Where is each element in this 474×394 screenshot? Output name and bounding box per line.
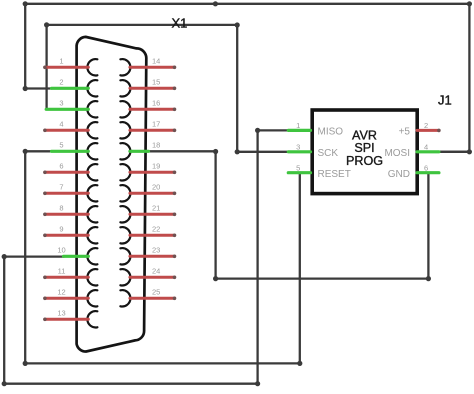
svg-text:X1: X1 [172, 16, 188, 31]
svg-text:J1: J1 [438, 92, 452, 107]
X1 pin 8 stub [45, 213, 88, 216]
svg-text:18: 18 [152, 141, 160, 150]
X1 pin 16 socket arc [120, 101, 130, 117]
connector X1 body (DB25) [77, 37, 147, 352]
wire net pin2/MOSI: top horizontal [25, 3, 469, 5]
wire net pin5/RESET: left vertical [24, 151, 26, 363]
X1 pin 21 stub [130, 213, 175, 216]
X1 pin 14 stub [130, 66, 175, 69]
X1 pin 22 stub [130, 234, 175, 237]
svg-text:8: 8 [59, 204, 63, 213]
svg-text:SPI: SPI [354, 141, 374, 155]
svg-text:1: 1 [59, 57, 63, 66]
X1 pin 7 socket arc [87, 185, 97, 201]
svg-text:20: 20 [152, 183, 160, 192]
svg-text:24: 24 [152, 267, 160, 276]
X1 pin 1 stub [45, 66, 88, 69]
svg-text:3: 3 [59, 99, 63, 108]
J1 pin 3 (SCK) stub [288, 150, 310, 153]
X1 pin 5 stub (connected, green) [52, 150, 89, 153]
X1 pin 13 stub [45, 318, 88, 321]
J1 pin 4 (MOSI) stub [417, 150, 439, 153]
svg-text:4: 4 [59, 120, 63, 129]
X1 pin 4 socket arc [87, 122, 97, 138]
svg-text:5: 5 [296, 164, 300, 173]
X1 pin 2 stub (connected, green) [52, 87, 89, 90]
X1 pin 11 stub [45, 276, 88, 279]
X1 pin 9 stub [45, 234, 88, 237]
svg-text:23: 23 [152, 246, 160, 255]
svg-text:22: 22 [152, 225, 160, 234]
X1 pin 7 stub [45, 192, 88, 195]
svg-text:4: 4 [424, 143, 428, 152]
svg-text:PROG: PROG [346, 154, 383, 168]
X1 pin 4 stub [45, 129, 88, 132]
svg-text:11: 11 [58, 267, 66, 276]
wire net pin18/GND: vertical up to GND [427, 174, 429, 279]
X1 pin 23 socket arc [120, 248, 130, 264]
wire pin2 stub lead [25, 87, 52, 89]
J1 title text AVR SPI PROG [346, 128, 383, 168]
X1 pin 8 socket arc [87, 206, 97, 222]
wire net pin10/MISO: vertical up to MISO [258, 130, 289, 383]
wire net pin10/MISO: stub lead [4, 255, 64, 257]
X1 pin 2 socket arc [87, 80, 97, 96]
wire net pin10/MISO: bottom horizontal [4, 383, 257, 385]
wire net pin2/MOSI: right vertical down to MOSI [439, 4, 470, 152]
X1 pin 12 stub [45, 297, 88, 300]
svg-text:+5: +5 [399, 127, 411, 138]
X1 pin 25 stub [130, 297, 175, 300]
X1 pin 24 stub [130, 276, 175, 279]
X1 pin 24 socket arc [120, 269, 130, 285]
svg-text:10: 10 [57, 246, 65, 255]
X1 pin 23 stub [130, 255, 175, 258]
svg-text:GND: GND [388, 169, 410, 180]
X1 pin 6 socket arc [87, 164, 97, 180]
X1 pin 18 stub (connected, green) [130, 150, 149, 153]
IC J1 body (AVR SPI PROG) [312, 110, 417, 194]
X1 pin 18 socket arc [120, 143, 130, 159]
svg-text:15: 15 [152, 78, 160, 87]
X1 pin 20 socket arc [120, 185, 130, 201]
svg-text:21: 21 [152, 204, 160, 213]
svg-text:3: 3 [296, 143, 300, 152]
X1 pin 12 socket arc [87, 290, 97, 306]
X1 pin 21 socket arc [120, 206, 130, 222]
X1 pin 20 stub [130, 192, 175, 195]
wire net pin5/RESET: vertical up to RESET [299, 174, 301, 363]
X1 pin 5 socket arc [87, 143, 97, 159]
svg-text:MISO: MISO [318, 127, 344, 138]
svg-text:MOSI: MOSI [384, 148, 410, 159]
svg-text:16: 16 [152, 99, 160, 108]
X1 pin 19 socket arc [120, 164, 130, 180]
X1 pin 9 socket arc [87, 227, 97, 243]
X1 pin 13 socket arc [87, 311, 97, 327]
X1 pin 10 socket arc [87, 248, 97, 264]
J1 pin 2 (+5) stub [417, 129, 439, 132]
X1 pin 22 socket arc [120, 227, 130, 243]
X1 pin 3 stub (connected, green) [46, 108, 88, 111]
wire net pin18/GND: from pin 18 [148, 151, 216, 278]
svg-text:9: 9 [59, 225, 63, 234]
svg-text:6: 6 [59, 162, 63, 171]
X1 pin 10 stub (connected, green) [64, 255, 89, 258]
X1 pin 17 socket arc [120, 122, 130, 138]
wire net pin3/SCK: X1 horizontal [47, 24, 238, 26]
wire net pin18/GND: lower horizontal [216, 277, 429, 279]
J1 pin 5 (RESET) stub [288, 171, 310, 174]
svg-text:6: 6 [424, 164, 428, 173]
X1 pin 1 socket arc [87, 59, 97, 75]
X1 pin 25 socket arc [120, 290, 130, 306]
svg-text:25: 25 [152, 288, 160, 297]
pin endpoint tips [43, 66, 441, 322]
svg-text:19: 19 [152, 162, 160, 171]
svg-text:13: 13 [57, 309, 65, 318]
X1 pin 6 stub [45, 171, 88, 174]
X1 pin 16 stub [130, 108, 175, 111]
J1 pin 1 (MISO) stub [288, 129, 310, 132]
X1 pin 19 stub [130, 171, 175, 174]
svg-text:1: 1 [296, 121, 300, 130]
wire MOSI lead [439, 151, 470, 153]
X1 pin 15 socket arc [120, 80, 130, 96]
svg-text:17: 17 [152, 120, 160, 129]
wire net pin3/SCK: right vertical + into SCK [237, 25, 289, 152]
wire net pin5/RESET: bottom horizontal [25, 362, 300, 364]
svg-text:RESET: RESET [318, 169, 351, 180]
X1 pin 3 socket arc [87, 101, 97, 117]
X1 pin 11 socket arc [87, 269, 97, 285]
svg-text:14: 14 [152, 57, 160, 66]
svg-text:12: 12 [57, 288, 65, 297]
wire net pin5/RESET: stub lead [25, 150, 52, 152]
X1 pin 14 socket arc [120, 59, 130, 75]
svg-text:SCK: SCK [318, 148, 339, 159]
J1 pin 6 (GND) stub [417, 171, 439, 174]
X1 pin 15 stub [130, 87, 175, 90]
svg-text:7: 7 [59, 183, 63, 192]
X1 pin 17 stub [130, 129, 175, 132]
wire net pin2/MOSI: left vertical [24, 4, 26, 89]
wire net pin10/MISO: far-left vertical [3, 257, 5, 384]
wire net pin3/SCK: left vertical to pin 3 [45, 25, 47, 109]
svg-text:2: 2 [59, 78, 63, 87]
svg-text:2: 2 [424, 121, 428, 130]
svg-text:5: 5 [59, 141, 63, 150]
